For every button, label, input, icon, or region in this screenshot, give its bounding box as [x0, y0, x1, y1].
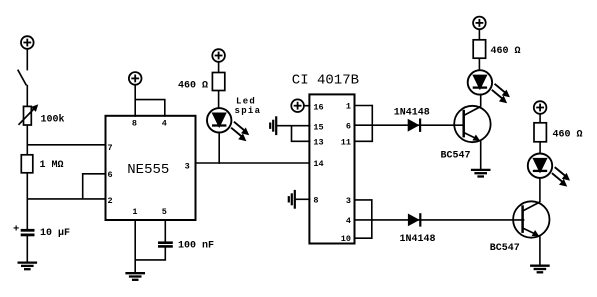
- wire: [26, 125, 28, 155]
- svg-text:14: 14: [313, 159, 323, 169]
- svg-text:100k: 100k: [41, 113, 65, 125]
- power supply + symbol (NE555 Vcc): [129, 72, 142, 85]
- wire: [539, 114, 541, 123]
- power supply + symbol (4017 Vdd pin 16): [291, 99, 304, 112]
- IC U1 NE555 body: [106, 116, 196, 220]
- svg-text:7: 7: [108, 143, 113, 153]
- transistor Q1 BC547 (NPN): [454, 106, 490, 142]
- svg-text:10 µF: 10 µF: [40, 228, 70, 239]
- LED (Q2 collector): [528, 154, 552, 178]
- ground (Q1 emitter): [471, 170, 491, 177]
- wire (100nF to pin1 rail): [135, 247, 166, 260]
- svg-text:1 MΩ: 1 MΩ: [40, 160, 64, 171]
- svg-text:spia: spia: [235, 106, 262, 116]
- wire (Q1 emitter to ground): [480, 141, 482, 170]
- wire: [218, 133, 220, 164]
- wire: [218, 62, 220, 73]
- LED spia (indicator): [207, 108, 231, 132]
- LED spia light arrows: [231, 122, 249, 142]
- svg-text:1N4148: 1N4148: [394, 108, 430, 119]
- ground (NE555 pin 1): [125, 273, 145, 280]
- resistor 460 Ω (Q1 collector LED): [473, 40, 485, 58]
- wire (ground to pin 8): [295, 198, 311, 200]
- potentiometer 100k: [19, 104, 39, 125]
- svg-text:3: 3: [185, 161, 190, 171]
- wire: [26, 236, 28, 263]
- wire (pin 5 down): [164, 220, 166, 243]
- svg-text:1: 1: [346, 102, 351, 112]
- ground (4017 pin 8 Vss): [289, 190, 295, 209]
- resistor 460 Ω (LED spia): [212, 73, 224, 91]
- ground (Q2 emitter): [530, 266, 550, 273]
- wire (Vdd to pin 16): [304, 105, 311, 107]
- wire (LED to Q2 collector): [539, 178, 541, 202]
- svg-text:BC547: BC547: [490, 243, 520, 254]
- capacitor 100 nF: [158, 243, 173, 247]
- svg-text:16: 16: [313, 103, 323, 113]
- svg-text:6: 6: [346, 122, 351, 132]
- svg-text:3: 3: [346, 196, 351, 206]
- resistor 460 Ω (Q2 collector LED): [534, 123, 546, 142]
- power supply + symbol (LED 2 of 4017 outputs): [534, 101, 547, 114]
- power supply + symbol (LED spia): [212, 49, 225, 62]
- svg-text:15: 15: [313, 122, 323, 132]
- LED light arrows (Q2 LED): [552, 167, 570, 187]
- wire (pin 6 to diode D1 / Q1 base): [354, 124, 464, 126]
- wire: [26, 49, 28, 71]
- ground (4017 pin 15/13 reset): [270, 116, 276, 135]
- svg-text:460 Ω: 460 Ω: [491, 46, 521, 57]
- wire (Vcc to pin 8): [134, 85, 136, 117]
- wire (ground to pin 15): [276, 125, 310, 127]
- wire (pin 15 to pin 13 bracket): [292, 126, 311, 142]
- capacitor 10 µF (electrolytic, + plate): [13, 224, 35, 236]
- svg-text:1: 1: [132, 207, 137, 217]
- IC U2 CI 4017B body: [309, 94, 354, 243]
- wire (pins 3/4/10 bracket): [354, 199, 372, 239]
- wire (pin 8 to pin 4 bracket): [135, 100, 165, 117]
- transistor Q2 BC547 (NPN): [513, 201, 549, 237]
- resistor 1 M&#937;: [21, 155, 33, 173]
- LED (Q1 collector): [468, 70, 492, 94]
- wire: [539, 142, 541, 154]
- svg-text:460 Ω: 460 Ω: [178, 81, 208, 92]
- svg-text:6: 6: [108, 170, 113, 180]
- wire (pin 3 output to 4017 pin 14): [196, 162, 311, 164]
- svg-text:460 Ω: 460 Ω: [553, 130, 583, 141]
- wire: [478, 58, 480, 70]
- svg-text:+: +: [13, 224, 19, 236]
- svg-text:CI 4017B: CI 4017B: [292, 73, 359, 89]
- wire: [26, 85, 28, 107]
- power supply + symbol (battery positive): [21, 36, 34, 49]
- svg-text:BC547: BC547: [441, 150, 471, 161]
- wire (to NE555 pin 2): [27, 198, 107, 200]
- wire (pin 1 down): [134, 220, 136, 273]
- wire (pins 1/6/11 bracket): [354, 105, 373, 142]
- svg-text:5: 5: [162, 207, 167, 217]
- wire (pin 6 stub): [83, 174, 107, 199]
- svg-text:8: 8: [132, 118, 137, 128]
- switch S1 (on/off blade): [18, 70, 27, 86]
- diode D2 1N4148: [408, 213, 420, 226]
- svg-text:10: 10: [341, 234, 351, 244]
- wire (LED to Q1 collector): [480, 95, 482, 107]
- wire (Q2 emitter to ground): [539, 236, 541, 266]
- svg-text:100 nF: 100 nF: [178, 240, 214, 251]
- svg-text:4: 4: [346, 216, 351, 226]
- wire: [26, 173, 28, 230]
- svg-text:11: 11: [341, 138, 351, 148]
- wire: [218, 91, 220, 109]
- power supply + symbol (LED 1 of 4017 outputs): [473, 17, 486, 30]
- LED light arrows (Q1 LED): [492, 84, 510, 104]
- label Led spia: [235, 97, 262, 116]
- ground (battery/cap return): [18, 263, 38, 270]
- svg-text:NE555: NE555: [127, 162, 169, 178]
- wire (pin 4 to diode D2 / Q2 base): [354, 219, 525, 221]
- svg-text:2: 2: [108, 196, 113, 206]
- svg-text:1N4148: 1N4148: [400, 234, 436, 245]
- diode D1 1N4148: [408, 119, 420, 132]
- svg-text:4: 4: [162, 118, 167, 128]
- svg-text:13: 13: [313, 137, 323, 147]
- wire: [478, 29, 480, 40]
- wire (to NE555 pin 7): [27, 144, 107, 146]
- svg-text:8: 8: [313, 195, 318, 205]
